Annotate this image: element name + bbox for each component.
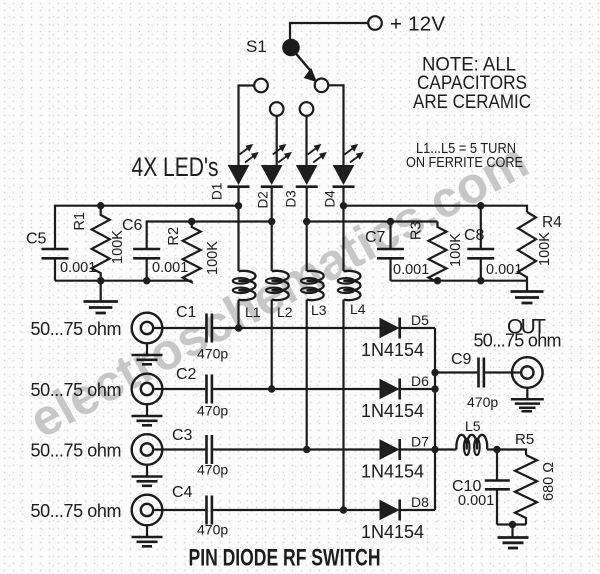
wire bottom rail right block	[391, 280, 528, 282]
svg-text:1N4154: 1N4154	[361, 462, 424, 482]
wire throw4 to branch4	[328, 85, 343, 165]
svg-text:470p: 470p	[197, 462, 228, 478]
svg-text:D3: D3	[284, 190, 299, 207]
wire D6 to bus	[401, 388, 435, 390]
svg-text:50...75 ohm: 50...75 ohm	[31, 440, 122, 460]
resistor R1	[92, 206, 110, 281]
wire +12V to S1 pole	[290, 23, 368, 42]
svg-text:D4: D4	[323, 190, 338, 208]
watermark electroschematics.com	[20, 132, 537, 449]
svg-text:S1: S1	[246, 37, 267, 56]
svg-text:C6: C6	[122, 217, 143, 234]
wire throw3 down branch3	[305, 116, 307, 165]
svg-text:100K: 100K	[110, 230, 126, 264]
ground R5/C10	[498, 525, 529, 549]
node R3 bottom	[434, 277, 441, 284]
input connector 4	[132, 495, 163, 526]
wire rail1 left (C5/R1 to branch1)	[55, 206, 239, 249]
wire D7 to bus	[401, 448, 435, 450]
LED D4	[333, 145, 364, 187]
wire rail1 right (branch4 to C8/R4)	[344, 206, 528, 212]
resistor R5	[515, 455, 537, 525]
ground input 2	[132, 404, 163, 425]
switch S1 pole	[283, 40, 298, 55]
capacitor C2	[154, 375, 212, 404]
wire C9 to output connector	[485, 371, 521, 373]
node branch3-rail2	[303, 218, 310, 225]
svg-text:50...75 ohm: 50...75 ohm	[31, 501, 122, 521]
resistor R3	[429, 222, 447, 283]
node branch4-rail1	[340, 202, 347, 209]
ground left block	[84, 281, 118, 313]
node L4-row4	[340, 506, 347, 513]
svg-text:C2: C2	[176, 366, 197, 383]
wire L1 bottom to row1	[237, 300, 239, 328]
svg-text:C8: C8	[464, 227, 485, 244]
svg-text:ARE CERAMIC: ARE CERAMIC	[413, 92, 531, 113]
wire row2 (C2 to D6)	[213, 388, 380, 390]
svg-text:C4: C4	[172, 484, 193, 501]
capacitor C8	[467, 206, 494, 281]
svg-text:0.001: 0.001	[393, 262, 429, 278]
wire L5 to R5 top	[487, 450, 526, 456]
node R1 top	[97, 202, 104, 209]
wire LED D4 cathode down branch4	[342, 188, 344, 271]
node L2-row2	[268, 385, 275, 392]
resistor R4	[518, 212, 536, 281]
inductor L5	[456, 435, 487, 455]
svg-text:L4: L4	[350, 301, 366, 317]
diode D8	[380, 500, 400, 521]
node branch2-rail2	[268, 218, 275, 225]
svg-text:680 Ω: 680 Ω	[541, 462, 557, 501]
wire common bus	[434, 328, 436, 510]
switch throw contact 3 (mid-right)	[300, 102, 314, 116]
wire LED D3 cathode down branch3	[306, 188, 308, 271]
svg-text:L5: L5	[465, 418, 481, 434]
input connector 3	[132, 434, 163, 465]
NOTE text	[413, 55, 531, 114]
capacitor C4	[154, 496, 212, 525]
wire LED D1 cathode down branch1	[237, 188, 239, 271]
capacitor C1	[154, 314, 212, 343]
wire bottom rail left block	[55, 280, 192, 282]
wire L4 bottom down to row4	[342, 300, 344, 510]
node ground tap	[509, 521, 516, 528]
capacitor C6	[133, 249, 160, 281]
wire row3 (C3 to D7)	[213, 448, 380, 450]
svg-text:4X LED's: 4X LED's	[132, 152, 219, 182]
node R2 top	[188, 218, 195, 225]
svg-text:50...75 ohm: 50...75 ohm	[31, 380, 122, 400]
node bus-C9 tap	[431, 369, 438, 376]
svg-text:L2: L2	[277, 304, 293, 320]
wire rail2 left (C6/R2 to branch2)	[147, 222, 272, 250]
capacitor C3	[154, 435, 212, 464]
node bus-row2	[431, 385, 438, 392]
svg-text:+ 12V: + 12V	[390, 13, 445, 36]
+12V terminal	[368, 13, 445, 36]
switch throw contact 2 (mid-left)	[270, 102, 284, 116]
node bus-row3	[431, 446, 438, 453]
svg-text:50...75 ohm: 50...75 ohm	[474, 330, 562, 350]
LED D2	[261, 145, 292, 187]
svg-text:D1: D1	[210, 183, 225, 200]
diode D6	[380, 379, 400, 400]
node branch1-rail1	[235, 202, 242, 209]
svg-text:PIN DIODE RF SWITCH: PIN DIODE RF SWITCH	[189, 545, 381, 572]
wire L2 bottom down to row2	[271, 300, 273, 389]
wire D8 to bus	[401, 509, 435, 511]
node C8 bottom	[477, 277, 484, 284]
svg-text:470p: 470p	[467, 394, 498, 410]
wire LED D2 cathode down branch2	[271, 188, 273, 271]
wire bottom rail R5/C10	[497, 523, 526, 525]
inductor L3	[301, 271, 324, 300]
svg-text:D6: D6	[411, 373, 429, 389]
node C6 bottom	[143, 277, 150, 284]
svg-text:L3: L3	[311, 302, 327, 318]
wire throw2 down branch2	[276, 116, 278, 165]
input connector 1	[132, 313, 163, 344]
node L3-row3	[303, 446, 310, 453]
wire row3 bus to L5	[435, 448, 457, 450]
svg-text:D5: D5	[411, 312, 429, 328]
svg-text:R4: R4	[542, 214, 562, 231]
inductor L4	[338, 271, 361, 300]
svg-text:R3: R3	[409, 221, 425, 240]
capacitor C5	[42, 249, 69, 281]
capacitor C7	[377, 222, 404, 281]
svg-text:50...75 ohm: 50...75 ohm	[31, 319, 122, 339]
svg-text:C5: C5	[26, 231, 47, 248]
svg-text:C3: C3	[172, 427, 193, 444]
ground output	[511, 388, 544, 411]
svg-text:0.001: 0.001	[458, 493, 494, 509]
svg-text:D2: D2	[256, 191, 271, 208]
svg-text:R5: R5	[515, 431, 534, 448]
wire rail2 right (branch3 to C7/R3)	[307, 220, 438, 222]
wire bus to C9	[435, 371, 477, 373]
svg-text:1N4154: 1N4154	[361, 340, 424, 360]
node C7 top	[387, 218, 394, 225]
svg-text:D8: D8	[411, 494, 429, 510]
node C5R1 bottom	[97, 277, 104, 284]
svg-text:ON FERRITE CORE: ON FERRITE CORE	[406, 154, 523, 171]
svg-text:0.001: 0.001	[152, 260, 188, 276]
svg-text:C1: C1	[176, 304, 197, 321]
node L5-C10	[493, 446, 500, 453]
svg-text:470p: 470p	[197, 346, 228, 362]
svg-text:100K: 100K	[205, 241, 221, 275]
switch throw contact 4 (top-right)	[315, 79, 329, 93]
ground input 1	[132, 343, 163, 364]
wire row1 (C1 to D5)	[213, 327, 380, 329]
diode D5	[380, 318, 400, 339]
capacitor C10	[485, 450, 510, 525]
svg-text:470p: 470p	[197, 522, 228, 538]
node L1-row1	[235, 324, 242, 331]
wire throw1 to branch1	[239, 86, 255, 166]
L1..L5 note text	[406, 140, 523, 171]
input connector 2	[132, 374, 163, 405]
svg-text:0.001: 0.001	[486, 262, 522, 278]
svg-text:470p: 470p	[197, 403, 228, 419]
svg-text:1N4154: 1N4154	[361, 522, 424, 542]
inductor L2	[266, 271, 289, 300]
svg-text:L1: L1	[245, 304, 261, 320]
inductor L1	[233, 271, 256, 300]
LED D3	[296, 145, 327, 187]
LED D1	[228, 145, 259, 187]
wire row4 (C4 to D8)	[213, 509, 380, 511]
svg-text:D7: D7	[411, 434, 429, 450]
svg-text:1N4154: 1N4154	[361, 401, 424, 421]
svg-text:R1: R1	[72, 212, 88, 231]
ground right block	[511, 281, 544, 303]
wire L3 bottom down to row3	[306, 300, 308, 450]
svg-text:100K: 100K	[537, 232, 553, 266]
svg-text:100K: 100K	[448, 233, 464, 267]
ground input 4	[132, 525, 163, 546]
diode D7	[380, 439, 400, 460]
node C8 top	[477, 202, 484, 209]
svg-text:CAPACITORS: CAPACITORS	[417, 73, 527, 94]
switch throw contact 1 (top-left)	[254, 79, 268, 93]
ground input 3	[132, 465, 163, 486]
capacitor C9	[479, 358, 484, 388]
wire D5 to bus	[401, 327, 435, 329]
resistor R2	[183, 222, 201, 283]
svg-text:C7: C7	[365, 229, 386, 246]
svg-text:C9: C9	[451, 351, 472, 368]
switch S1 arm with arrowhead	[296, 53, 316, 81]
output connector	[512, 357, 543, 388]
svg-text:R2: R2	[166, 227, 182, 246]
